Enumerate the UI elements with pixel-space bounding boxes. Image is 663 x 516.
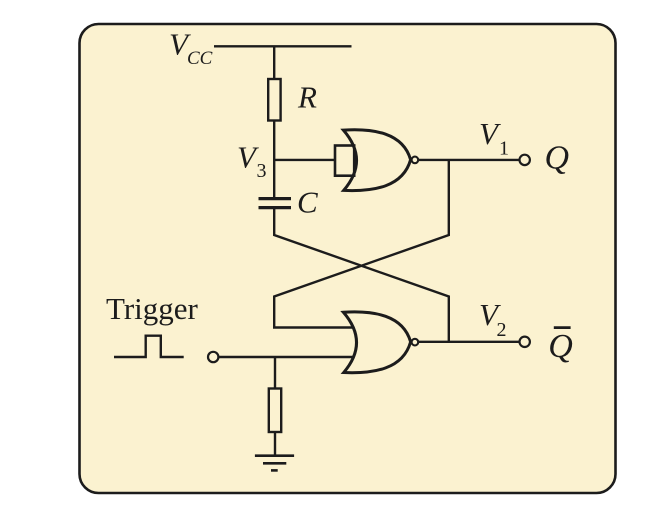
- wire resistor to node V3 / capacitor: [273, 121, 275, 198]
- label V2: [479, 297, 507, 341]
- NOR gate U2: [343, 312, 410, 373]
- NOR gate U1: [343, 130, 410, 191]
- wire resistor R2 to ground: [274, 432, 276, 456]
- svg-text:V: V: [479, 116, 501, 151]
- terminal Trigger input open circle: [208, 352, 218, 362]
- NOR gate U1 output bubble: [412, 157, 419, 164]
- NOR gate U2 output bubble: [412, 339, 419, 346]
- svg-text:3: 3: [257, 160, 267, 182]
- terminal Qbar open circle: [520, 337, 530, 347]
- resistor R2: [269, 389, 281, 433]
- svg-text:CC: CC: [187, 48, 213, 69]
- label Vcc: [169, 26, 213, 69]
- svg-text:2: 2: [497, 319, 507, 341]
- capacitor C bottom plate: [259, 206, 292, 209]
- gate U1 input tie box: [335, 146, 354, 176]
- ground: [255, 456, 294, 471]
- svg-text:R: R: [297, 80, 317, 115]
- wire rail to resistor R: [273, 46, 275, 79]
- wire junction to resistor R2: [274, 357, 276, 389]
- trigger pulse symbol: [114, 336, 184, 357]
- wire trigger terminal to gate U2 lower input: [218, 356, 353, 358]
- label V1: [479, 116, 509, 160]
- resistor R: [268, 79, 280, 121]
- svg-text:Q: Q: [548, 328, 573, 365]
- svg-text:1: 1: [499, 138, 509, 160]
- wire U2 output to terminal Qbar (node V2): [419, 341, 519, 343]
- wire V1 branch to crossing to gate U2 upper input: [274, 160, 449, 328]
- label Qbar: [548, 328, 573, 365]
- capacitor C top plate: [259, 197, 292, 200]
- wire node V3 to gate U1 input box: [274, 159, 336, 161]
- Vcc power rail: [214, 45, 352, 47]
- svg-text:Trigger: Trigger: [106, 291, 199, 326]
- wire capacitor bottom to crossing: [274, 208, 449, 342]
- svg-text:Q: Q: [545, 139, 570, 176]
- label V3: [237, 139, 267, 182]
- terminal Q open circle: [520, 155, 530, 165]
- svg-text:C: C: [297, 185, 318, 220]
- wire U1 output to terminal Q (node V1): [419, 159, 519, 161]
